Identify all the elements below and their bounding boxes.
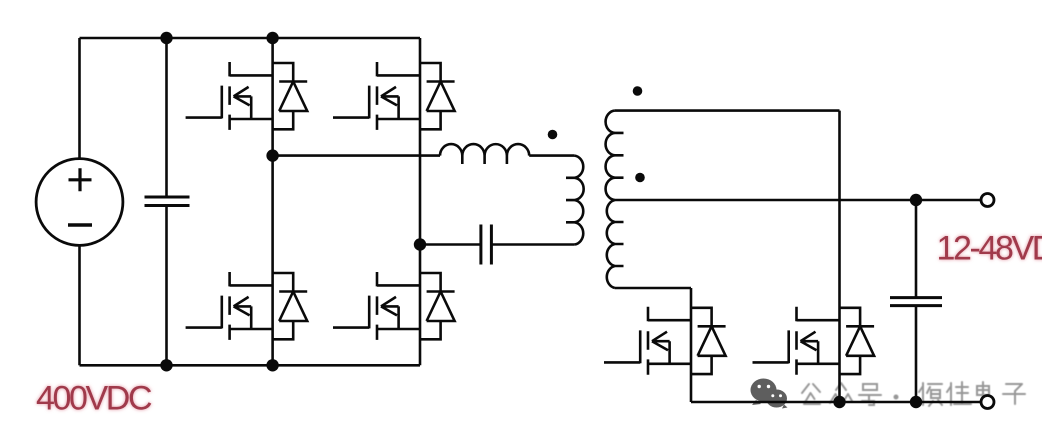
node junction dot bottom rail Q3 xyxy=(266,359,278,371)
wire Q2 leg vertical xyxy=(419,38,422,245)
inductor Lr resonant xyxy=(440,144,529,164)
wire inductor to transformer primary xyxy=(529,154,574,157)
node junction dot output plus Co xyxy=(910,194,922,206)
voltage source V1 xyxy=(36,159,123,246)
wire Q4 leg vertical xyxy=(419,245,422,366)
node junction dot bridge midpoint A xyxy=(266,149,278,161)
wire capacitor Cr to transformer primary bottom xyxy=(491,243,574,246)
label 400VDC xyxy=(36,380,152,418)
transformer T1 secondary winding lower xyxy=(607,200,624,288)
wire top rail xyxy=(80,37,421,40)
node junction dot bottom rail C1 xyxy=(160,359,172,371)
wire SR2 leg vertical xyxy=(838,111,841,402)
transistor Q3 (low side left, with body diode) xyxy=(186,272,308,340)
terminal output minus xyxy=(981,396,994,409)
transformer T1 secondary polarity dot upper xyxy=(633,86,643,96)
wire secondary bottom to SR1 drain xyxy=(615,287,691,290)
wire Q1 leg drain-source vertical xyxy=(271,38,274,156)
transformer T1 primary polarity dot xyxy=(548,130,558,140)
wire center tap to output plus xyxy=(615,199,981,202)
terminal output plus xyxy=(981,194,994,207)
wire output bottom rail xyxy=(691,401,981,404)
label 12-48VDC xyxy=(937,230,1042,268)
transformer T1 primary winding xyxy=(566,156,584,245)
svg-text:400VDC: 400VDC xyxy=(36,380,152,418)
svg-text:12-48VDC: 12-48VDC xyxy=(937,230,1042,268)
transformer T1 secondary winding upper xyxy=(606,111,624,200)
watermark text 公众号·倾佳电子 xyxy=(802,382,1025,406)
wire secondary top to SR2 drain xyxy=(615,109,840,112)
wire SR1 leg vertical xyxy=(690,288,693,402)
wire left rail down to source V1 xyxy=(78,38,81,159)
transistor SR2 synchronous rectifier (with body diode) xyxy=(753,307,875,375)
node junction dot output rail Co xyxy=(910,396,922,408)
wire bottom rail xyxy=(80,364,421,367)
node junction dot bridge midpoint B xyxy=(414,238,426,250)
transistor Q2 (high side right, with body diode) xyxy=(333,62,455,130)
transistor SR1 synchronous rectifier (with body diode) xyxy=(604,307,726,375)
wire Q3 leg vertical xyxy=(271,156,274,366)
node junction dot top rail Q1 xyxy=(266,32,278,44)
transformer T1 secondary polarity dot lower xyxy=(635,173,645,183)
transistor Q1 (high side left, with body diode) xyxy=(186,62,308,130)
transistor Q4 (low side right, with body diode) xyxy=(333,272,455,340)
capacitor C1 input bulk cap xyxy=(145,38,190,365)
node junction dot output rail SR2 xyxy=(833,396,845,408)
wire bridge midpoint A to inductor xyxy=(273,154,440,157)
wire source V1 bottom to bottom rail xyxy=(78,245,81,365)
watermark wechat icon xyxy=(751,379,788,409)
capacitor Co output filter xyxy=(890,200,942,402)
wire bridge midpoint B to capacitor Cr xyxy=(420,243,481,246)
node junction dot top rail C1 xyxy=(160,32,172,44)
capacitor Cr resonant xyxy=(481,225,492,265)
